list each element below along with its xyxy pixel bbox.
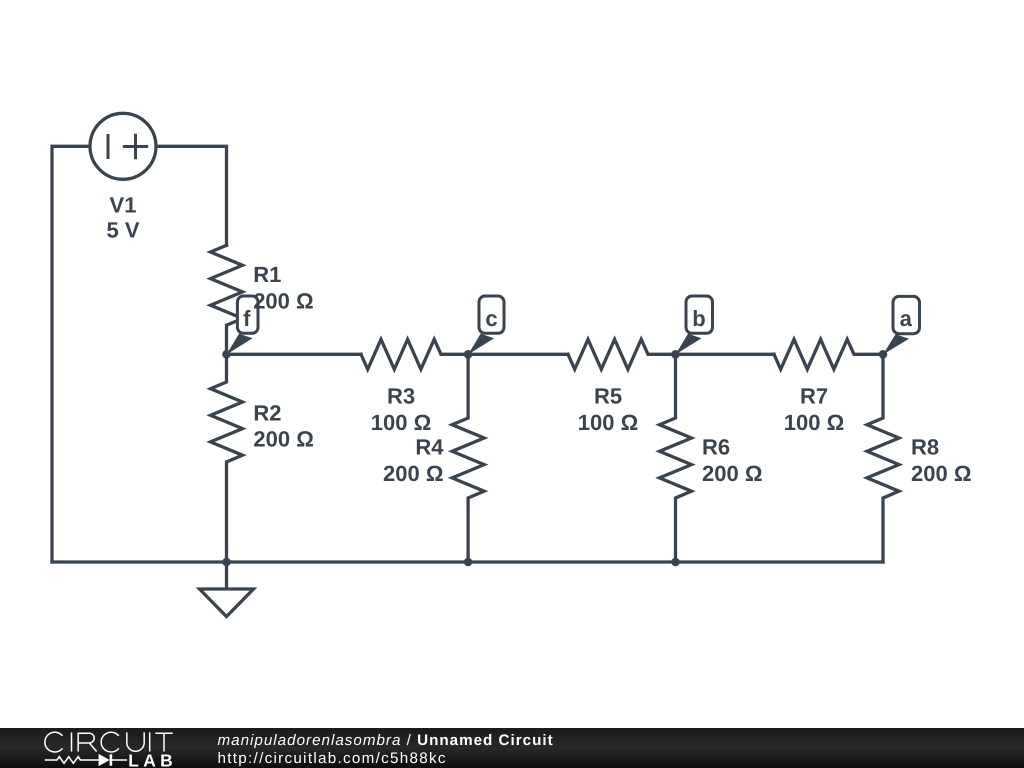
svg-text:V1: V1	[110, 192, 137, 217]
svg-text:R7: R7	[800, 384, 828, 409]
svg-text:R3: R3	[387, 384, 415, 409]
label R4 200 ohm	[383, 435, 444, 486]
svg-text:200 Ω: 200 Ω	[253, 289, 313, 314]
svg-text:c: c	[485, 306, 497, 331]
wire left rail	[52, 146, 123, 562]
wire node b to R7	[676, 353, 775, 356]
svg-text:http://circuitlab.com/c5h88kc: http://circuitlab.com/c5h88kc	[218, 750, 447, 767]
label R2 200 ohm	[253, 400, 313, 451]
svg-text:5 V: 5 V	[106, 218, 139, 243]
resistor R4	[452, 354, 484, 562]
node f flag	[227, 296, 259, 355]
junction dot bottom right	[671, 558, 680, 567]
junction dot node c	[464, 350, 473, 359]
node c flag	[468, 296, 504, 355]
label R8 200 ohm	[911, 435, 971, 486]
svg-text:R4: R4	[415, 435, 444, 460]
svg-text:b: b	[692, 306, 705, 331]
svg-text:R6: R6	[702, 435, 730, 460]
resistor R1	[211, 245, 243, 354]
CircuitLab logo LAB	[128, 750, 177, 768]
resistor R5	[568, 339, 676, 369]
svg-text:a: a	[900, 306, 913, 331]
node b flag	[676, 296, 713, 355]
resistor R7	[774, 339, 883, 369]
resistor R8	[867, 354, 899, 562]
svg-text:R8: R8	[911, 435, 939, 460]
svg-text:R1: R1	[253, 262, 281, 287]
svg-text:200 Ω: 200 Ω	[383, 461, 443, 486]
svg-text:R5: R5	[594, 384, 622, 409]
svg-text:100 Ω: 100 Ω	[784, 410, 844, 435]
label R6 200 ohm	[702, 435, 762, 486]
wire node c to R5	[468, 353, 568, 356]
resistor R6	[660, 354, 692, 562]
label R7 100 ohm	[784, 384, 844, 435]
wire bottom bus	[52, 560, 883, 563]
junction dot bottom middle	[464, 558, 473, 567]
label R5 100 ohm	[578, 384, 638, 435]
resistor R3	[361, 339, 468, 369]
junction dot node b	[671, 350, 680, 359]
svg-text:200 Ω: 200 Ω	[702, 461, 762, 486]
junction dot bottom left	[222, 558, 231, 567]
node a flag	[883, 296, 920, 354]
label V1 5 V	[106, 192, 139, 242]
resistor R2	[211, 354, 243, 562]
svg-text:200 Ω: 200 Ω	[253, 426, 313, 451]
CircuitLab logo CIRCUIT	[45, 732, 173, 752]
label R1 200 ohm	[253, 262, 313, 313]
voltage source V1	[90, 113, 156, 179]
ground	[200, 562, 254, 617]
junction dot node a	[879, 350, 888, 359]
svg-text:R2: R2	[253, 400, 281, 425]
CircuitLab logo glyph resistor-diode	[45, 754, 127, 766]
footer title text	[218, 732, 554, 749]
wire V1 right to R1 top	[123, 146, 227, 245]
wire node f to R3	[227, 353, 362, 356]
svg-text:100 Ω: 100 Ω	[371, 410, 431, 435]
svg-text:100 Ω: 100 Ω	[578, 410, 638, 435]
svg-text:LAB: LAB	[128, 750, 177, 768]
footer url text	[218, 750, 447, 767]
svg-text:200 Ω: 200 Ω	[911, 461, 971, 486]
junction dot node f	[222, 350, 231, 359]
svg-text:manipuladorenlasombra / Unname: manipuladorenlasombra / Unnamed Circuit	[218, 732, 554, 749]
svg-text:f: f	[243, 306, 251, 331]
label R3 100 ohm	[371, 384, 431, 435]
footer bar	[0, 728, 1024, 768]
